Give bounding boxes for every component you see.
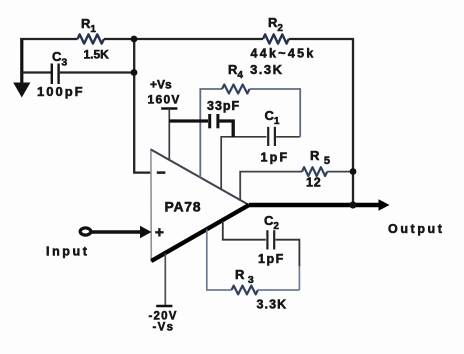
wire: 33pF right thick elbow down — [219, 121, 233, 137]
resistor R5 — [302, 167, 327, 176]
wire: C2 pin down from bottom edge — [222, 221, 224, 240]
node: output junction — [349, 201, 356, 208]
svg-text:+Vs: +Vs — [150, 78, 172, 92]
node: R5/rail junction — [350, 168, 357, 175]
wire: output thick line — [249, 203, 381, 208]
capacitor C 33pF — [208, 114, 211, 128]
wire: right side lower part to R3 level — [298, 266, 300, 290]
power -Vs bar — [156, 305, 172, 307]
resistor R4 — [222, 85, 250, 94]
op-amp U1 triangle — [151, 150, 249, 262]
svg-text:1.5K: 1.5K — [84, 48, 110, 62]
wire: top horizontal (R2 to right rail) + right rail down to output — [289, 39, 353, 204]
node: junction C3/feedback — [131, 69, 138, 76]
resistor R2 — [263, 34, 289, 43]
resistor R3 — [232, 286, 258, 295]
power +Vs bar — [161, 107, 177, 110]
svg-text:160V: 160V — [148, 93, 181, 107]
wire: +Vs down to op-amp — [168, 109, 170, 161]
wire: -Vs down from bottom edge — [164, 254, 166, 307]
svg-text:100pF: 100pF — [37, 84, 85, 99]
ground — [13, 83, 30, 98]
wire: thick compensation line to 33pF — [169, 119, 208, 122]
resistor R1 — [78, 34, 104, 43]
svg-text:44k~45k: 44k~45k — [251, 47, 316, 61]
svg-text:33pF: 33pF — [207, 99, 240, 113]
pin: inverting input minus — [157, 171, 166, 174]
svg-text:Input: Input — [46, 245, 90, 259]
svg-text:12: 12 — [306, 176, 322, 190]
wire: top horizontal (R1 to R2) — [104, 38, 263, 40]
wire: C3 to junction — [60, 71, 134, 73]
svg-text:-Vs: -Vs — [153, 322, 175, 334]
wire: C2 left horizontal — [222, 239, 266, 241]
svg-text:PA78: PA78 — [165, 199, 202, 215]
svg-text:Output: Output — [388, 222, 445, 236]
wire: feedback vertical to inverting input — [134, 39, 150, 173]
wire: R3 right to loop corner — [258, 289, 300, 291]
wire: input arrow — [92, 230, 142, 234]
wire: C3 horizontal — [20, 71, 51, 73]
wire: R4 loop top right + right side down to C1 — [250, 89, 301, 137]
wire: R5 pin from top edge up and right — [240, 172, 302, 201]
capacitor C3 — [51, 64, 53, 85]
wire: R5 to right rail — [327, 171, 353, 173]
wire: R3 pin down from bottom edge — [207, 230, 232, 291]
capacitor C2 — [266, 230, 268, 249]
node: junction R1/R2/feedback — [131, 36, 138, 43]
pin: non-inverting input plus — [155, 228, 163, 236]
wire: R4 loop left side — [200, 89, 222, 178]
input terminal — [80, 228, 91, 235]
svg-text:3.3K: 3.3K — [257, 298, 288, 312]
wire: comp pin up from top edge to C1 line — [221, 137, 266, 190]
svg-text:1pF: 1pF — [261, 151, 290, 165]
wire: top horizontal (left of R1) — [20, 38, 77, 40]
wire: C2 right + down — [276, 240, 300, 267]
svg-text:1pF: 1pF — [258, 252, 285, 266]
wire: C1 right to rail — [276, 136, 300, 138]
capacitor C1 — [267, 127, 269, 146]
wire: left vertical from top wire down to ground — [20, 38, 23, 84]
